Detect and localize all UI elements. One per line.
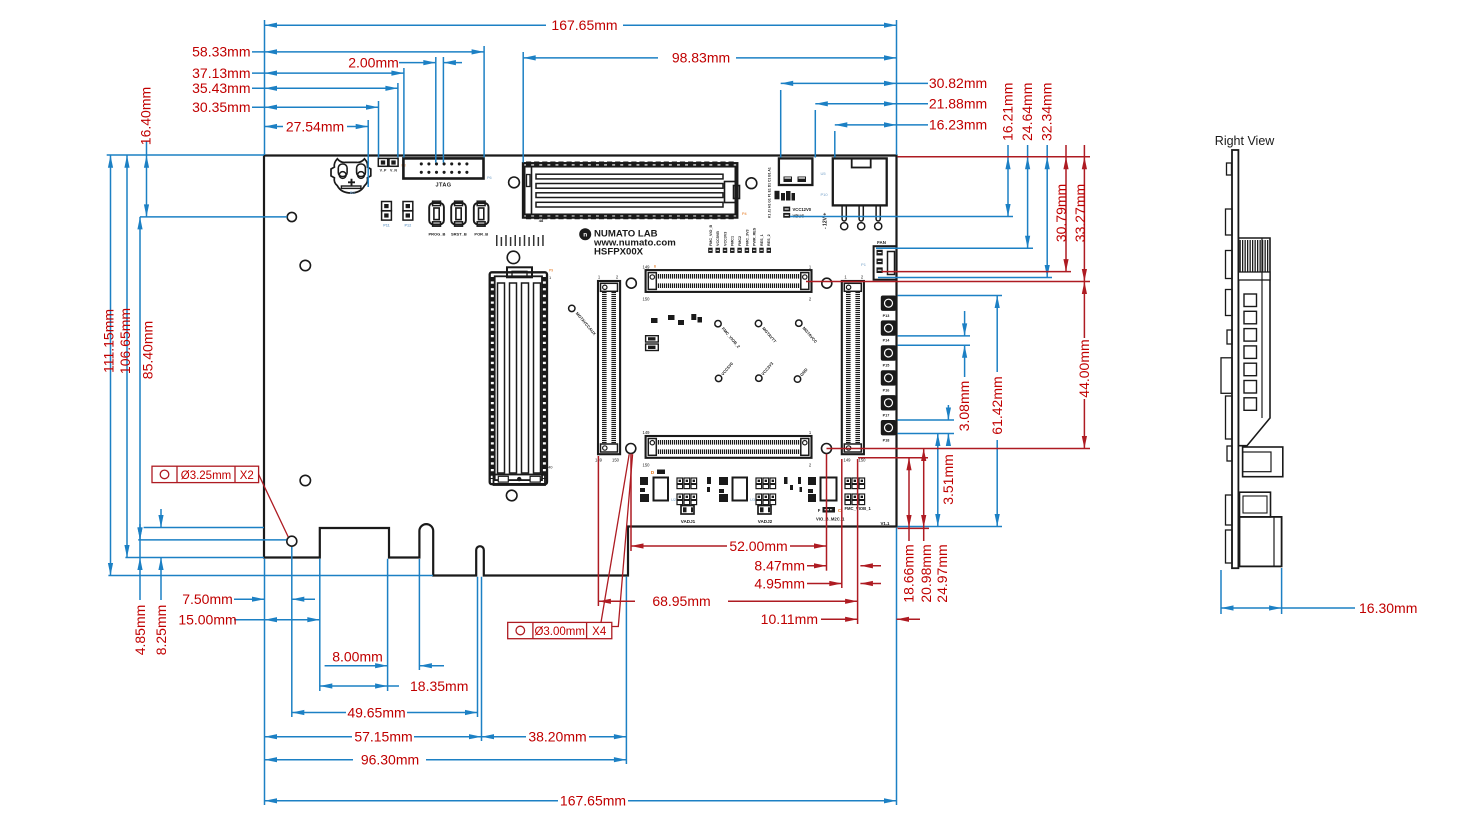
svg-text:8.25mm: 8.25mm	[153, 605, 169, 656]
right view FMC stack	[1238, 238, 1270, 446]
svg-text:49.65mm: 49.65mm	[347, 704, 405, 720]
svg-text:P13: P13	[883, 314, 890, 318]
dimension 4.85mm	[139, 540, 141, 558]
svg-text:RES_1: RES_1	[760, 234, 764, 246]
dimension 111.15mm	[110, 155, 112, 576]
svg-text:106.65mm: 106.65mm	[117, 308, 133, 374]
svg-text:98.83mm: 98.83mm	[672, 50, 730, 66]
dimension 32.34mm	[1046, 145, 1048, 278]
svg-text:16.40mm: 16.40mm	[137, 87, 153, 145]
svg-text:111.15mm: 111.15mm	[101, 309, 117, 373]
hole H9 below ES connector	[506, 490, 517, 501]
svg-text:V_N: V_N	[390, 169, 397, 173]
right view USB profile	[1240, 492, 1271, 517]
svg-text:P11: P11	[383, 224, 390, 228]
LED VBUS	[783, 213, 790, 218]
svg-text:JTAG: JTAG	[435, 183, 451, 189]
JTAG connector P6	[403, 158, 483, 178]
battery holder B1	[331, 159, 371, 193]
svg-text:U3: U3	[750, 497, 756, 502]
svg-text:HSFPX00X: HSFPX00X	[594, 247, 644, 258]
svg-text:C: C	[838, 508, 841, 513]
svg-text:21.88mm: 21.88mm	[929, 96, 987, 112]
svg-text:149: 149	[643, 264, 651, 269]
svg-text:57.15mm: 57.15mm	[354, 729, 412, 745]
svg-text:149: 149	[643, 430, 651, 435]
svg-text:4.95mm: 4.95mm	[754, 575, 805, 591]
dimension 68.95mm	[598, 600, 635, 602]
dimension 49.65mm	[292, 712, 346, 714]
dimension 8.47mm	[807, 565, 827, 567]
jumper V_P V_N	[378, 158, 387, 166]
dimension 8.25mm	[158, 515, 163, 528]
svg-text:VIO_B_M2C_1: VIO_B_M2C_1	[816, 517, 845, 522]
svg-text:FMC_VIO_B: FMC_VIO_B	[709, 225, 713, 246]
hole 3.00mm bottom-left of module	[626, 444, 636, 454]
dimension 21.88mm	[815, 103, 928, 105]
svg-text:V_P: V_P	[380, 169, 387, 173]
svg-text:30.79mm: 30.79mm	[1053, 184, 1069, 242]
dimension 85.40mm	[139, 217, 141, 540]
svg-text:85.40mm: 85.40mm	[139, 321, 155, 379]
svg-text:7.50mm: 7.50mm	[182, 591, 233, 607]
svg-text:VCC5VB: VCC5VB	[716, 231, 720, 246]
dimension 7.50mm	[234, 598, 265, 600]
svg-text:VADJ2: VADJ2	[758, 519, 773, 524]
dimension 33.27mm	[1083, 145, 1085, 282]
dimension 57.15mm	[265, 736, 353, 738]
svg-text:- 12V +: - 12V +	[823, 213, 829, 229]
FMC connector bottom	[646, 436, 812, 458]
dimension 58.33mm	[252, 51, 484, 53]
test points module	[715, 321, 721, 327]
svg-text:VCC12V0: VCC12V0	[793, 207, 812, 212]
right view power connector profile	[1240, 517, 1282, 567]
dimension 16.23mm	[835, 124, 928, 126]
hole 3.00mm top-right of module	[822, 278, 832, 288]
svg-text:8.00mm: 8.00mm	[332, 649, 383, 665]
push button POR_B	[474, 203, 489, 224]
svg-text:4.85mm: 4.85mm	[132, 605, 148, 656]
svg-text:24.64mm: 24.64mm	[1019, 83, 1035, 141]
svg-text:10.11mm: 10.11mm	[761, 611, 818, 627]
IC U3 group	[719, 477, 728, 485]
dimension 38.20mm	[482, 736, 527, 738]
hole 3.00mm bottom-right of module	[822, 444, 832, 454]
svg-text:2.00mm: 2.00mm	[348, 54, 399, 70]
dimension 30.35mm	[252, 106, 379, 108]
svg-text:P16: P16	[883, 389, 890, 393]
svg-text:150: 150	[643, 297, 651, 302]
dimension 30.79mm	[1065, 145, 1067, 272]
svg-text:61.42mm: 61.42mm	[989, 376, 1005, 434]
hole H8 above ES connector	[507, 251, 519, 263]
svg-text:58.33mm: 58.33mm	[192, 44, 250, 60]
svg-text:VADJ1: VADJ1	[681, 519, 696, 524]
dimension 10.11mm	[821, 618, 858, 620]
module area small parts	[651, 318, 658, 323]
svg-text:P6: P6	[487, 176, 492, 180]
dimension 2.00mm	[399, 62, 436, 64]
svg-text:32.34mm: 32.34mm	[1039, 83, 1055, 141]
Numato logo	[579, 228, 591, 240]
dimension 52.00mm	[631, 545, 727, 547]
svg-text:U5: U5	[821, 171, 827, 176]
hole 3.00mm top-left of module	[626, 278, 636, 288]
svg-text:P15: P15	[883, 364, 890, 368]
svg-text:38.20mm: 38.20mm	[528, 729, 586, 745]
IC U2 group	[640, 477, 648, 485]
fan connector P1	[874, 246, 897, 280]
svg-text:B1: B1	[350, 190, 356, 195]
svg-text:X2: X2	[240, 470, 254, 482]
jumper P11	[382, 202, 392, 211]
extension lines red	[898, 156, 1090, 158]
svg-text:18.35mm: 18.35mm	[410, 678, 468, 694]
svg-text:Ø3.00mm: Ø3.00mm	[534, 626, 585, 638]
svg-text:P10: P10	[820, 192, 828, 197]
svg-text:33.27mm: 33.27mm	[1072, 184, 1088, 242]
svg-text:167.65mm: 167.65mm	[551, 17, 617, 33]
svg-text:30.82mm: 30.82mm	[929, 75, 987, 91]
callout diameter 3.25mm X2	[152, 466, 288, 537]
dimension 44.00mm	[1083, 282, 1085, 449]
svg-text:RES_2: RES_2	[767, 234, 771, 246]
svg-text:150: 150	[612, 458, 620, 463]
svg-text:Ø3.25mm: Ø3.25mm	[181, 470, 232, 482]
component VADJ2	[758, 506, 771, 515]
svg-text:PROG_B: PROG_B	[428, 231, 445, 236]
svg-text:20.98mm: 20.98mm	[918, 544, 934, 602]
dimension 24.64mm	[1027, 145, 1029, 248]
svg-text:150: 150	[643, 463, 651, 468]
svg-text:K1 J1 H1 G1 F1 E1 D1 C1: K1 J1 H1 G1 F1 E1 D1 C1 B1 A1	[768, 167, 772, 218]
board outline main view	[264, 156, 897, 576]
dimension 18.66mm	[908, 458, 910, 541]
parts below USB	[775, 191, 780, 200]
svg-text:24.97mm: 24.97mm	[934, 544, 950, 602]
svg-text:149: 149	[844, 458, 852, 463]
dimension 37.13mm	[252, 72, 404, 74]
svg-text:44.00mm: 44.00mm	[1076, 339, 1092, 397]
dimension 8.00mm	[325, 665, 388, 667]
test point MGTAVCCAUX	[569, 305, 575, 311]
dimension 167.65mm top	[265, 24, 547, 26]
dimension 167.65mm bottom	[265, 800, 559, 802]
mounting hole 3.25mm bottom-left	[287, 536, 297, 546]
LED VCC12V0	[783, 207, 790, 212]
dimension 96.30mm	[265, 759, 354, 761]
svg-text:96.30mm: 96.30mm	[361, 752, 419, 768]
svg-text:3.08mm: 3.08mm	[956, 381, 972, 432]
IC U10 group	[808, 477, 816, 485]
push button SRST_B	[451, 203, 466, 224]
svg-text:167.65mm: 167.65mm	[560, 793, 626, 809]
svg-text:FMC2: FMC2	[738, 236, 742, 246]
svg-text:27.54mm: 27.54mm	[286, 118, 344, 134]
svg-text:8.47mm: 8.47mm	[754, 558, 805, 574]
svg-text:POR_B: POR_B	[474, 231, 488, 236]
svg-text:48: 48	[539, 218, 544, 223]
dimension 30.82mm	[781, 82, 928, 84]
svg-text:40: 40	[548, 465, 553, 470]
dimension 106.65mm	[126, 155, 128, 558]
jumper P12	[403, 202, 413, 211]
dimension 4.95mm	[807, 583, 842, 585]
svg-text:3.51mm: 3.51mm	[940, 454, 956, 505]
dimension 24.97mm	[937, 434, 939, 527]
power connector P10	[833, 158, 887, 205]
svg-text:P17: P17	[883, 413, 890, 417]
svg-text:P4: P4	[742, 212, 747, 216]
svg-text:16.23mm: 16.23mm	[929, 117, 987, 133]
right view bracket	[1243, 447, 1283, 477]
dimension 35.43mm	[252, 87, 398, 89]
right view PCB profile	[1232, 150, 1238, 568]
svg-text:X4: X4	[592, 626, 607, 638]
mounting hole 3.25mm top-left	[287, 212, 296, 221]
dimension 20.98mm	[923, 449, 925, 542]
svg-text:P14: P14	[883, 339, 891, 343]
svg-text:52.00mm: 52.00mm	[729, 538, 787, 554]
svg-text:16.21mm: 16.21mm	[1000, 83, 1016, 141]
FMC connector left	[598, 281, 620, 454]
dimension 15.00mm	[234, 619, 320, 621]
svg-text:PWR_RES: PWR_RES	[753, 227, 757, 246]
svg-text:37.13mm: 37.13mm	[192, 65, 250, 81]
dimension 3.08mm	[964, 311, 966, 336]
hole H4	[300, 475, 310, 485]
dimension 98.83mm	[523, 57, 658, 59]
extension lines blue	[264, 20, 266, 155]
component VADJ1	[681, 506, 694, 515]
svg-text:n: n	[583, 232, 587, 239]
svg-text:16.30mm: 16.30mm	[1359, 600, 1417, 616]
hole H2	[300, 260, 310, 270]
svg-text:68.95mm: 68.95mm	[652, 593, 710, 609]
hole H6 left of P4	[509, 177, 520, 188]
dimension 18.35mm	[320, 685, 399, 687]
svg-text:F: F	[818, 508, 821, 513]
svg-text:P12: P12	[405, 224, 412, 228]
FMC connector right	[842, 281, 864, 454]
edge connector P4	[523, 163, 737, 217]
callout diameter 3.00mm X4	[508, 454, 633, 639]
USB connector U5	[779, 158, 813, 185]
hole H7 right of P4	[746, 178, 757, 189]
svg-text:P18: P18	[883, 438, 890, 442]
push button PROG_B	[429, 203, 444, 224]
right view dimension 16.30mm	[1220, 570, 1222, 614]
svg-text:VCC3V3: VCC3V3	[723, 232, 727, 246]
svg-text:35.43mm: 35.43mm	[192, 80, 250, 96]
dimension 16.21mm	[1007, 145, 1009, 217]
svg-text:15.00mm: 15.00mm	[178, 612, 236, 628]
svg-text:P1: P1	[861, 262, 867, 267]
svg-text:FAN: FAN	[877, 240, 886, 245]
silkscreen micro-label row left	[496, 235, 498, 246]
right view left-side parts	[1227, 163, 1232, 175]
dimension 16.40mm	[146, 142, 148, 217]
dimension 61.42mm	[996, 296, 998, 373]
svg-text:Right View: Right View	[1215, 134, 1275, 148]
svg-text:V1.1: V1.1	[880, 521, 890, 526]
svg-text:SRST_B: SRST_B	[451, 231, 467, 236]
svg-text:FMC1: FMC1	[731, 236, 735, 246]
svg-text:18.66mm: 18.66mm	[900, 544, 916, 602]
dimension 3.51mm	[947, 405, 949, 420]
FMC connector top	[646, 270, 812, 292]
ES vertical connector	[490, 272, 547, 484]
svg-text:U2: U2	[671, 497, 677, 502]
svg-text:FMC_3V3: FMC_3V3	[745, 229, 749, 246]
svg-text:P9: P9	[549, 269, 553, 273]
svg-text:30.35mm: 30.35mm	[192, 99, 250, 115]
push buttons P13-P18	[881, 296, 896, 311]
dimension 27.54mm	[265, 126, 284, 128]
